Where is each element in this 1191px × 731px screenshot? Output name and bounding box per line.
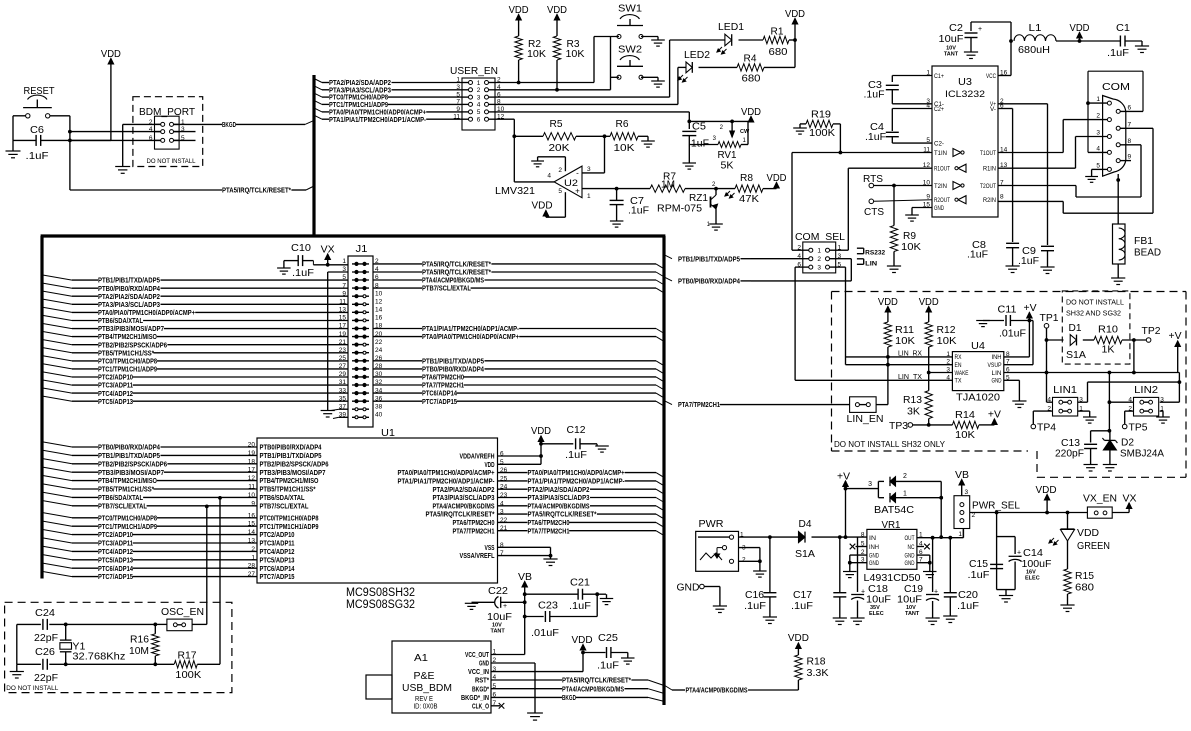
svg-text:10K: 10K <box>955 429 975 441</box>
svg-text:C1: C1 <box>1116 22 1130 34</box>
svg-text:RST*: RST* <box>475 677 489 685</box>
svg-text:16: 16 <box>375 315 383 322</box>
svg-text:VDD: VDD <box>1036 485 1057 496</box>
svg-text:2: 2 <box>903 473 907 480</box>
svg-text:NC: NC <box>908 544 915 551</box>
svg-text:C12: C12 <box>567 424 586 436</box>
svg-text:PTA1/PIA1/TPM2CH0/ADP1/ACMP-: PTA1/PIA1/TPM2CH0/ADP1/ACMP- <box>398 478 496 486</box>
svg-text:PTC1/TPM1CH1/ADP9: PTC1/TPM1CH1/ADP9 <box>98 366 157 374</box>
svg-text:R2IN: R2IN <box>983 198 996 204</box>
svg-text:PTB1/PIB1/TXD/ADP5: PTB1/PIB1/TXD/ADP5 <box>98 452 160 460</box>
svg-text:D1: D1 <box>1069 322 1082 334</box>
svg-text:10K: 10K <box>895 335 915 347</box>
svg-text:6: 6 <box>1128 104 1132 111</box>
svg-text:PTA5/IRQ/TCLK/RESET*: PTA5/IRQ/TCLK/RESET* <box>426 511 495 519</box>
svg-text:.01uF: .01uF <box>531 627 559 639</box>
svg-text:PTA5/IRQ/TCLK/RESET*: PTA5/IRQ/TCLK/RESET* <box>528 511 597 519</box>
svg-text:12: 12 <box>375 299 383 306</box>
svg-text:-: - <box>576 169 579 178</box>
svg-text:BEAD: BEAD <box>1134 247 1161 259</box>
svg-text:PTA5/IRQ/TCLK/RESET*: PTA5/IRQ/TCLK/RESET* <box>422 269 491 277</box>
svg-text:MC9S08SH32: MC9S08SH32 <box>346 587 415 599</box>
svg-text:DO NOT INSTALL: DO NOT INSTALL <box>6 685 59 692</box>
svg-text:LIN_TX: LIN_TX <box>898 374 922 381</box>
svg-text:LED1: LED1 <box>718 21 744 33</box>
svg-text:VCC: VCC <box>986 74 997 80</box>
svg-text:LIN1: LIN1 <box>1053 384 1077 396</box>
svg-text:PTB0/PIB0/RXD/ADP4: PTB0/PIB0/RXD/ADP4 <box>98 444 160 452</box>
svg-text:VDD: VDD <box>1077 527 1099 539</box>
svg-text:.1uF: .1uF <box>292 267 314 279</box>
svg-text:GND: GND <box>479 660 489 668</box>
svg-text:+: + <box>978 26 982 33</box>
svg-text:3.3K: 3.3K <box>807 667 829 679</box>
svg-text:TP1: TP1 <box>1040 312 1059 324</box>
svg-text:PTB2/PIB2/SPSCK/ADP6: PTB2/PIB2/SPSCK/ADP6 <box>98 341 167 349</box>
svg-text:D4: D4 <box>799 518 812 530</box>
svg-text:+: + <box>861 589 865 596</box>
svg-text:3: 3 <box>1160 396 1164 403</box>
svg-text:PTB6/SDA/XTAL: PTB6/SDA/XTAL <box>260 494 306 502</box>
svg-text:RTS: RTS <box>863 173 883 185</box>
svg-text:PTB0/PIB0/RXD/ADP4: PTB0/PIB0/RXD/ADP4 <box>260 444 322 452</box>
svg-text:A1: A1 <box>414 652 428 664</box>
svg-text:PTC4/ADP12: PTC4/ADP12 <box>98 390 133 398</box>
svg-text:C25: C25 <box>598 632 618 644</box>
svg-text:PTA4/ACMP0/BKGD/MS: PTA4/ACMP0/BKGD/MS <box>686 687 748 695</box>
svg-text:22pF: 22pF <box>34 672 58 684</box>
svg-text:3: 3 <box>868 481 872 488</box>
svg-text:PTB3/PIB3/MOSI/ADP7: PTB3/PIB3/MOSI/ADP7 <box>98 469 164 477</box>
svg-text:C10: C10 <box>291 242 311 254</box>
svg-text:TX: TX <box>955 378 963 385</box>
svg-text:VDDA/VREFH: VDDA/VREFH <box>460 453 495 461</box>
svg-text:.1uF: .1uF <box>565 449 587 461</box>
svg-text:.1uF: .1uF <box>864 90 885 101</box>
svg-text:CLK_O: CLK_O <box>472 702 489 710</box>
svg-text:3K: 3K <box>907 406 920 418</box>
svg-text:3: 3 <box>587 166 591 173</box>
svg-text:7: 7 <box>1128 121 1132 128</box>
svg-text:LIN2: LIN2 <box>1134 384 1158 396</box>
svg-text:PTB5/TPM1CH1/SS*: PTB5/TPM1CH1/SS* <box>98 486 154 494</box>
svg-text:R8: R8 <box>740 172 753 184</box>
svg-text:GND: GND <box>905 560 915 567</box>
svg-text:PTB0/PIB0/RXD/ADP4: PTB0/PIB0/RXD/ADP4 <box>422 366 484 374</box>
svg-text:TP4: TP4 <box>1037 422 1056 434</box>
svg-text:.1uF: .1uF <box>1107 47 1129 59</box>
svg-text:.1uF: .1uF <box>628 206 649 217</box>
svg-text:R16: R16 <box>130 634 149 646</box>
svg-text:PTC2/ADP10: PTC2/ADP10 <box>260 531 295 539</box>
svg-text:PTB5/TPM1CH1/SS*: PTB5/TPM1CH1/SS* <box>98 349 154 357</box>
svg-text:PTA0/PIA0/TPM1CH0/ADP0/ACMP+: PTA0/PIA0/TPM1CH0/ADP0/ACMP+ <box>398 469 495 477</box>
svg-text:PTC2/ADP10: PTC2/ADP10 <box>98 531 133 539</box>
svg-text:R1OUT: R1OUT <box>934 167 950 173</box>
svg-text:PTB6/SDA/XTAL: PTB6/SDA/XTAL <box>98 494 144 502</box>
svg-text:LIN_EN: LIN_EN <box>847 413 884 425</box>
svg-text:R5: R5 <box>550 118 563 130</box>
svg-text:R1: R1 <box>771 26 784 38</box>
svg-text:1: 1 <box>587 193 591 200</box>
svg-text:S1A: S1A <box>795 548 815 560</box>
svg-text:PTA6/TPM2CH0: PTA6/TPM2CH0 <box>453 519 495 527</box>
svg-text:PTA4/ACMP0/BKGD/MS: PTA4/ACMP0/BKGD/MS <box>433 502 495 510</box>
svg-text:GREEN: GREEN <box>1077 540 1110 552</box>
svg-text:EN: EN <box>955 362 962 369</box>
svg-text:PTA2/PIA2/SDA/ADP2: PTA2/PIA2/SDA/ADP2 <box>98 293 160 301</box>
svg-text:INH: INH <box>992 354 1002 361</box>
svg-text:PTA7/TPM2CH1: PTA7/TPM2CH1 <box>678 401 720 409</box>
svg-text:TANT: TANT <box>491 629 506 635</box>
svg-text:R18: R18 <box>807 656 826 668</box>
svg-text:PTB1/PIB1/TXD/ADP5: PTB1/PIB1/TXD/ADP5 <box>260 452 322 460</box>
svg-text:.01uF: .01uF <box>999 329 1026 340</box>
svg-text:.1uF: .1uF <box>744 600 766 612</box>
svg-text:COM: COM <box>1102 81 1130 93</box>
svg-text:10uF: 10uF <box>939 33 964 45</box>
svg-text:10K: 10K <box>614 142 635 154</box>
svg-text:LMV321: LMV321 <box>495 185 535 197</box>
svg-text:1: 1 <box>1096 96 1100 103</box>
svg-text:VR1: VR1 <box>882 519 901 531</box>
svg-text:24: 24 <box>375 347 383 354</box>
svg-text:R2OUT: R2OUT <box>934 198 950 204</box>
svg-text:+: + <box>503 603 507 610</box>
svg-text:OUT: OUT <box>905 535 915 542</box>
svg-text:PTA3/PIA3/SCL/ADP3: PTA3/PIA3/SCL/ADP3 <box>433 494 495 502</box>
svg-text:10: 10 <box>375 290 383 297</box>
svg-text:4: 4 <box>1096 145 1100 152</box>
svg-text:SH32 AND SG32: SH32 AND SG32 <box>1066 309 1121 318</box>
svg-text:C6: C6 <box>30 124 44 136</box>
svg-text:REV E: REV E <box>415 696 433 703</box>
svg-text:6: 6 <box>477 117 481 124</box>
svg-text:VDD: VDD <box>532 200 553 212</box>
svg-text:220pF: 220pF <box>1055 448 1084 460</box>
svg-text:GND: GND <box>934 206 944 212</box>
svg-text:U4: U4 <box>971 340 985 352</box>
svg-text:USER_EN: USER_EN <box>450 65 498 77</box>
svg-text:+V: +V <box>837 472 850 483</box>
svg-text:IN: IN <box>869 535 876 542</box>
svg-text:VCC_IN: VCC_IN <box>468 668 489 676</box>
svg-text:C22: C22 <box>488 585 508 597</box>
svg-text:S1A: S1A <box>1066 349 1086 361</box>
svg-text:L1: L1 <box>1029 22 1042 34</box>
svg-text:T2OUT: T2OUT <box>980 184 996 190</box>
svg-text:ELEC: ELEC <box>1025 576 1040 582</box>
svg-text:PTC5/ADP13: PTC5/ADP13 <box>98 398 133 406</box>
svg-text:4: 4 <box>547 173 551 180</box>
svg-text:40: 40 <box>375 412 383 419</box>
svg-text:PTB7/SCL/EXTAL: PTB7/SCL/EXTAL <box>98 502 148 510</box>
svg-text:.1uF: .1uF <box>26 150 49 162</box>
svg-text:680: 680 <box>742 73 761 85</box>
svg-text:R13: R13 <box>903 394 922 406</box>
svg-text:PTC7/ADP15: PTC7/ADP15 <box>422 398 457 406</box>
svg-text:SW2: SW2 <box>618 44 642 56</box>
svg-text:9: 9 <box>1128 154 1132 161</box>
svg-text:C26: C26 <box>35 646 55 658</box>
svg-text:+: + <box>934 589 938 596</box>
svg-text:1: 1 <box>342 258 346 265</box>
svg-text:1: 1 <box>903 491 907 498</box>
svg-text:PTA3/PIA3/SCL/ADP3: PTA3/PIA3/SCL/ADP3 <box>98 301 160 309</box>
svg-text:R10: R10 <box>1098 324 1118 336</box>
svg-text:PTB1/PIB1/TXD/ADP5: PTB1/PIB1/TXD/ADP5 <box>422 357 484 365</box>
svg-text:J1: J1 <box>356 243 368 255</box>
svg-text:PTA1/PIA1/TPM2CH0/ADP1/ACMP-: PTA1/PIA1/TPM2CH0/ADP1/ACMP- <box>329 116 427 124</box>
svg-text:PTA0/PIA0/TPM1CH0/ADP0/ACMP+: PTA0/PIA0/TPM1CH0/ADP0/ACMP+ <box>98 309 195 317</box>
svg-text:.1uF: .1uF <box>967 250 988 261</box>
svg-text:38: 38 <box>375 403 383 410</box>
svg-text:MC9S08SG32: MC9S08SG32 <box>346 599 415 611</box>
svg-text:PTA6/TPM2CH0: PTA6/TPM2CH0 <box>422 374 464 382</box>
svg-text:PTC4/ADP12: PTC4/ADP12 <box>260 548 295 556</box>
svg-text:100uF: 100uF <box>1022 558 1052 570</box>
svg-text:ELEC: ELEC <box>869 611 884 617</box>
svg-text:U1: U1 <box>381 427 395 439</box>
svg-text:PTB4/TPM2CH1/MISO: PTB4/TPM2CH1/MISO <box>260 477 319 485</box>
svg-text:PTC0/TPM1CH0/ADP8: PTC0/TPM1CH0/ADP8 <box>98 358 157 366</box>
svg-text:3: 3 <box>965 489 969 496</box>
svg-text:GND: GND <box>677 582 700 594</box>
svg-text:VDD: VDD <box>485 461 495 469</box>
svg-text:8: 8 <box>861 532 865 539</box>
svg-text:FB1: FB1 <box>1134 235 1153 247</box>
svg-text:PTA0/PIA0/TPM1CH0/ADP0/ACMP+: PTA0/PIA0/TPM1CH0/ADP0/ACMP+ <box>422 333 519 341</box>
svg-text:2: 2 <box>817 256 821 263</box>
svg-text:PTB2/PIB2/SPSCK/ADP6: PTB2/PIB2/SPSCK/ADP6 <box>260 460 329 468</box>
svg-text:PTC6/ADP14: PTC6/ADP14 <box>422 390 457 398</box>
svg-text:R4: R4 <box>744 53 757 65</box>
svg-text:C24: C24 <box>35 607 55 619</box>
svg-text:GND: GND <box>992 378 1002 385</box>
svg-text:22: 22 <box>375 339 383 346</box>
svg-text:R6: R6 <box>616 118 629 130</box>
svg-text:C2-: C2- <box>934 141 944 147</box>
svg-text:PTC3/ADP11: PTC3/ADP11 <box>260 540 295 548</box>
svg-text:P&E: P&E <box>414 670 435 682</box>
svg-text:PTC6/ADP14: PTC6/ADP14 <box>98 565 133 573</box>
svg-text:DO NOT INSTALL: DO NOT INSTALL <box>1066 298 1124 307</box>
svg-text:PTA5/IRQ/TCLK/RESET*: PTA5/IRQ/TCLK/RESET* <box>422 261 491 269</box>
svg-text:3: 3 <box>1096 130 1100 137</box>
svg-text:PTA7/TPM2CH1: PTA7/TPM2CH1 <box>422 382 464 390</box>
svg-text:VCC_OUT: VCC_OUT <box>465 651 489 659</box>
svg-text:PTC6/ADP14: PTC6/ADP14 <box>260 565 295 573</box>
svg-text:INH: INH <box>869 544 879 551</box>
svg-text:BKGD: BKGD <box>222 121 236 129</box>
svg-text:C23: C23 <box>538 600 558 612</box>
svg-text:PTB1/PIB1/TXD/ADP5: PTB1/PIB1/TXD/ADP5 <box>98 277 160 285</box>
svg-text:.1uF: .1uF <box>791 600 813 612</box>
svg-text:GND: GND <box>869 552 879 559</box>
svg-text:14: 14 <box>375 307 383 314</box>
svg-text:.1uF: .1uF <box>1018 256 1039 267</box>
svg-text:PTC2/ADP10: PTC2/ADP10 <box>98 374 133 382</box>
svg-text:TP5: TP5 <box>1129 422 1148 434</box>
svg-text:2: 2 <box>558 167 562 174</box>
svg-text:BKGD*: BKGD* <box>472 685 489 693</box>
svg-text:RS232: RS232 <box>865 249 885 256</box>
svg-text:R1IN: R1IN <box>983 167 996 173</box>
svg-text:32.768Khz: 32.768Khz <box>72 651 125 663</box>
svg-text:VSS: VSS <box>485 544 495 552</box>
svg-text:TP3: TP3 <box>889 420 908 432</box>
svg-text:R19: R19 <box>811 109 831 121</box>
svg-text:PTA7/TPM2CH1: PTA7/TPM2CH1 <box>528 527 570 535</box>
svg-text:C2+: C2+ <box>934 107 944 113</box>
svg-text:PTB0/PIB0/RXD/ADP4: PTB0/PIB0/RXD/ADP4 <box>678 278 740 286</box>
svg-text:+V: +V <box>1169 331 1182 342</box>
svg-text:680: 680 <box>769 46 788 58</box>
svg-text:PTC3/ADP11: PTC3/ADP11 <box>98 382 133 390</box>
svg-text:PTB3/PIB3/MOSI/ADP7: PTB3/PIB3/MOSI/ADP7 <box>260 469 326 477</box>
svg-text:PTC4/ADP12: PTC4/ADP12 <box>98 548 133 556</box>
svg-text:ID: 0X0B: ID: 0X0B <box>414 704 438 711</box>
svg-text:PTA6/TPM2CH0: PTA6/TPM2CH0 <box>528 519 570 527</box>
svg-text:.1uF: .1uF <box>865 132 886 143</box>
svg-text:PTA7/TPM2CH1: PTA7/TPM2CH1 <box>453 527 495 535</box>
svg-text:10K: 10K <box>566 48 585 60</box>
svg-text:PTB6/SDA/XTAL: PTB6/SDA/XTAL <box>98 317 144 325</box>
svg-text:PTB7/SCL/EXTAL: PTB7/SCL/EXTAL <box>422 285 472 293</box>
svg-text:8: 8 <box>1128 138 1132 145</box>
svg-text:+: + <box>575 187 580 196</box>
svg-text:ICL3232: ICL3232 <box>945 89 985 99</box>
svg-text:VX_EN: VX_EN <box>1083 493 1117 505</box>
svg-text:PTC0/TPM1CH0/ADP8: PTC0/TPM1CH0/ADP8 <box>98 514 157 522</box>
svg-text:1: 1 <box>477 80 481 87</box>
svg-text:PTC7/ADP15: PTC7/ADP15 <box>98 573 133 581</box>
svg-text:.1uF: .1uF <box>968 569 990 581</box>
svg-text:VSSA/VREFL: VSSA/VREFL <box>460 552 496 560</box>
svg-text:C11: C11 <box>998 304 1017 316</box>
svg-text:2: 2 <box>742 557 746 564</box>
svg-text:PTC3/ADP11: PTC3/ADP11 <box>98 540 133 548</box>
svg-text:PTB2/PIB2/SPSCK/ADP6: PTB2/PIB2/SPSCK/ADP6 <box>98 460 167 468</box>
svg-text:LIN_RX: LIN_RX <box>898 351 922 358</box>
svg-text:SW1: SW1 <box>618 3 642 15</box>
svg-text:680uH: 680uH <box>1018 44 1050 56</box>
svg-text:GND: GND <box>869 560 879 567</box>
svg-text:VB: VB <box>955 470 969 481</box>
svg-text:PTA5/IRQ/TCLK/RESET*: PTA5/IRQ/TCLK/RESET* <box>222 187 291 195</box>
svg-text:PTC0/TPM1CH0/ADP8: PTC0/TPM1CH0/ADP8 <box>260 514 319 522</box>
svg-text:PTB4/TPM2CH1/MISO: PTB4/TPM2CH1/MISO <box>98 477 157 485</box>
svg-text:PTA1/PIA1/TPM2CH0/ADP1/ACMP-: PTA1/PIA1/TPM2CH0/ADP1/ACMP- <box>528 478 626 486</box>
svg-text:1: 1 <box>958 531 962 538</box>
svg-text:100K: 100K <box>809 127 835 139</box>
svg-text:VX: VX <box>1123 494 1137 505</box>
svg-text:BKGD: BKGD <box>562 694 576 702</box>
svg-text:3: 3 <box>817 264 821 271</box>
svg-text:RPM-075: RPM-075 <box>657 203 702 215</box>
svg-text:+: + <box>1017 550 1021 557</box>
svg-text:LIN: LIN <box>865 261 877 268</box>
svg-text:10K: 10K <box>901 241 921 253</box>
svg-text:WAKE: WAKE <box>955 370 969 377</box>
svg-text:PTB4/TPM2CH1/MISO: PTB4/TPM2CH1/MISO <box>98 333 157 341</box>
svg-text:DO NOT INSTALL: DO NOT INSTALL <box>147 158 196 165</box>
svg-text:PTC1/TPM1CH1/ADP9: PTC1/TPM1CH1/ADP9 <box>98 523 157 531</box>
svg-text:V-: V- <box>990 107 996 113</box>
svg-text:VDD: VDD <box>572 635 593 646</box>
svg-text:1: 1 <box>817 248 821 255</box>
svg-text:22pF: 22pF <box>34 632 58 644</box>
svg-text:T2IN: T2IN <box>934 184 947 190</box>
svg-text:PTA5/IRQ/TCLK/RESET*: PTA5/IRQ/TCLK/RESET* <box>562 677 631 685</box>
svg-text:10uF: 10uF <box>866 594 891 606</box>
svg-text:DO NOT INSTALL SH32 ONLY: DO NOT INSTALL SH32 ONLY <box>834 439 945 449</box>
svg-text:PTC5/ADP13: PTC5/ADP13 <box>98 556 133 564</box>
svg-text:VSUP: VSUP <box>988 362 1002 369</box>
svg-text:4: 4 <box>477 102 481 109</box>
svg-text:C21: C21 <box>570 577 590 589</box>
svg-text:GND: GND <box>905 552 915 559</box>
svg-text:1K: 1K <box>1102 344 1115 356</box>
svg-text:TANT: TANT <box>944 52 959 58</box>
svg-text:8: 8 <box>1000 194 1004 201</box>
svg-text:CTS: CTS <box>864 206 884 218</box>
svg-text:5: 5 <box>477 109 481 116</box>
svg-text:.1uF: .1uF <box>957 600 979 612</box>
svg-text:VB: VB <box>518 572 532 583</box>
svg-text:SMBJ24A: SMBJ24A <box>1120 448 1164 460</box>
svg-text:PTB1/PIB1/TXD/ADP5: PTB1/PIB1/TXD/ADP5 <box>678 255 740 263</box>
svg-text:PTA4/ACMP0/BKGD/MS: PTA4/ACMP0/BKGD/MS <box>562 685 624 693</box>
svg-text:10uF: 10uF <box>487 611 512 623</box>
svg-text:47K: 47K <box>739 193 759 205</box>
svg-text:5: 5 <box>558 188 562 195</box>
svg-text:PTA4/ACMP0/BKGD/MS: PTA4/ACMP0/BKGD/MS <box>422 277 484 285</box>
svg-text:COM_SEL: COM_SEL <box>795 231 845 243</box>
svg-text:T1OUT: T1OUT <box>980 151 996 157</box>
svg-text:10uF: 10uF <box>897 594 922 606</box>
svg-text:USB_BDM: USB_BDM <box>402 682 452 694</box>
svg-text:TANT: TANT <box>905 611 920 617</box>
svg-text:PTB5/TPM1CH1/SS*: PTB5/TPM1CH1/SS* <box>260 486 316 494</box>
svg-text:.1uF: .1uF <box>569 600 591 612</box>
svg-text:.1uF: .1uF <box>597 660 619 672</box>
svg-text:T1IN: T1IN <box>934 151 947 157</box>
svg-text:10M: 10M <box>129 645 149 657</box>
svg-text:RX: RX <box>955 354 963 361</box>
svg-text:BAT54C: BAT54C <box>874 504 914 516</box>
svg-text:PTB7/SCL/EXTAL: PTB7/SCL/EXTAL <box>260 502 310 510</box>
svg-text:PTB0/PIB0/RXD/ADP4: PTB0/PIB0/RXD/ADP4 <box>98 285 160 293</box>
svg-text:PWR_SEL: PWR_SEL <box>972 500 1020 512</box>
svg-text:BKGD*_IN: BKGD*_IN <box>461 694 489 702</box>
svg-text:LED2: LED2 <box>684 49 710 61</box>
svg-text:680: 680 <box>1075 582 1094 594</box>
svg-text:PWR: PWR <box>699 518 724 530</box>
svg-text:PTC5/ADP13: PTC5/ADP13 <box>260 556 295 564</box>
svg-text:5K: 5K <box>721 160 734 172</box>
svg-text:TP2: TP2 <box>1142 325 1161 337</box>
svg-text:PTB3/PIB3/MOSI/ADP7: PTB3/PIB3/MOSI/ADP7 <box>98 325 164 333</box>
svg-text:C1+: C1+ <box>934 74 944 80</box>
svg-text:OSC_EN: OSC_EN <box>161 606 204 618</box>
svg-text:R15: R15 <box>1075 570 1094 582</box>
svg-text:PTA1/PIA1/TPM2CH0/ADP1/ACMP-: PTA1/PIA1/TPM2CH0/ADP1/ACMP- <box>422 325 520 333</box>
svg-text:10K: 10K <box>527 48 546 60</box>
svg-text:1M: 1M <box>661 179 675 191</box>
svg-text:10K: 10K <box>937 335 957 347</box>
svg-text:PTA0/PIA0/TPM1CH0/ADP0/ACMP+: PTA0/PIA0/TPM1CH0/ADP0/ACMP+ <box>528 469 625 477</box>
